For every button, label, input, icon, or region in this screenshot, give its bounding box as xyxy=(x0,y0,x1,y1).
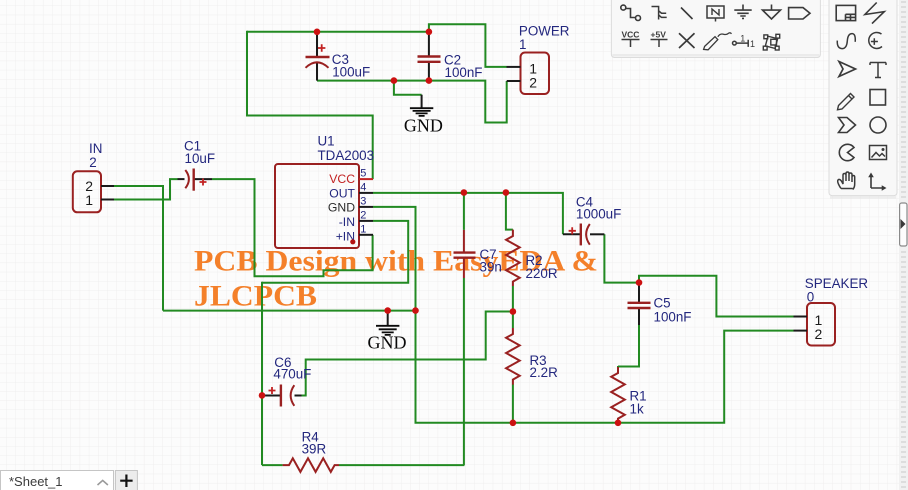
resistor R4 xyxy=(283,430,339,472)
junction R3 bottom xyxy=(510,420,517,427)
svg-text:GND: GND xyxy=(368,333,407,353)
icon drag hand xyxy=(838,172,855,190)
wire ground bus branch to C6 left and R4 xyxy=(261,282,263,465)
wire C7 bottom down to R4 row xyxy=(463,278,465,465)
icon move/cursor xyxy=(868,173,886,191)
svg-text:5: 5 xyxy=(360,168,366,180)
svg-text:*Sheet_1: *Sheet_1 xyxy=(9,474,63,489)
svg-text:1: 1 xyxy=(750,39,755,49)
svg-text:SPEAKER: SPEAKER xyxy=(805,276,869,291)
wire C5 junction to SPEAKER pin 1 xyxy=(639,276,794,317)
U1 anchor dot xyxy=(350,239,355,244)
svg-text:220R: 220R xyxy=(526,266,558,281)
wire ground bus xyxy=(163,310,416,312)
icon pie xyxy=(839,144,854,160)
ground symbol top xyxy=(404,95,443,136)
junction bus GND2 xyxy=(384,307,391,314)
svg-text:GND: GND xyxy=(328,201,355,215)
svg-text:TDA2003: TDA2003 xyxy=(318,148,375,163)
icon polyline xyxy=(865,3,884,24)
icon line tool xyxy=(681,8,693,20)
icon polygon xyxy=(839,118,856,133)
svg-text:1: 1 xyxy=(519,37,526,52)
resistor R1 xyxy=(611,367,646,424)
junction R2 bottom xyxy=(510,308,517,315)
svg-text:39n: 39n xyxy=(480,259,502,274)
svg-text:100uF: 100uF xyxy=(332,65,370,80)
svg-text:1k: 1k xyxy=(630,402,644,417)
icon no-connect X xyxy=(679,33,695,48)
drawing tools palette xyxy=(829,0,897,199)
wire C4 right to C5 junction xyxy=(604,234,639,282)
wiring tools palette xyxy=(611,0,820,58)
resistor R2 xyxy=(506,230,558,286)
svg-text:2: 2 xyxy=(89,155,96,170)
svg-text:2.2R: 2.2R xyxy=(530,365,559,380)
pin 1 +IN stub xyxy=(359,224,373,236)
wire IN pin 2 down to ground bus xyxy=(114,185,163,311)
icon bezier xyxy=(837,34,855,49)
svg-text:-IN: -IN xyxy=(339,215,355,229)
icon group/symbol tool xyxy=(763,34,779,50)
icon chassis ground xyxy=(763,5,781,20)
icon pencil xyxy=(838,94,855,110)
junction C5 top xyxy=(636,279,643,286)
pin dot C6 xyxy=(259,392,266,399)
svg-text:GND: GND xyxy=(404,116,443,136)
svg-text:IN: IN xyxy=(89,141,102,156)
capacitor C6 xyxy=(264,355,312,407)
capacitor C1 xyxy=(178,139,216,191)
add sheet button xyxy=(115,471,137,490)
wire U1 GND pin to ground bus and bottom bus to SPEAKER pin 2 xyxy=(373,207,794,423)
icon rectangle xyxy=(870,90,886,106)
pin 3 GND stub xyxy=(359,196,373,208)
pin 4 OUT stub xyxy=(359,182,373,194)
junction C3 top xyxy=(314,29,321,36)
svg-text:VCC: VCC xyxy=(329,172,355,186)
svg-text:1: 1 xyxy=(740,34,745,44)
pin 2 -IN stub xyxy=(359,210,373,222)
icon text xyxy=(870,63,886,78)
svg-text:470uF: 470uF xyxy=(273,367,311,382)
wire VCC left loop to U1 pin 5 xyxy=(247,31,373,179)
svg-text:OUT: OUT xyxy=(329,186,355,200)
wire R4 row xyxy=(262,464,464,466)
icon net label xyxy=(707,6,724,22)
junction C2 bottom xyxy=(426,77,433,84)
svg-text:VCC: VCC xyxy=(622,30,640,40)
icon image xyxy=(870,146,887,160)
icon bus entry xyxy=(652,7,667,20)
wire C2 top to POWER pin 1 xyxy=(429,24,507,67)
connector IN xyxy=(73,141,114,212)
icon arc xyxy=(869,32,882,48)
wire C5 bottom to R1 xyxy=(618,325,639,423)
wire GND symbol tap xyxy=(394,81,422,95)
icon wire tool xyxy=(621,5,641,20)
svg-text:100nF: 100nF xyxy=(445,65,483,80)
svg-text:JLCPCB: JLCPCB xyxy=(194,281,317,313)
icon arrow xyxy=(839,62,856,77)
icon VCC flag xyxy=(622,30,640,48)
junction bus right xyxy=(412,307,419,314)
icon design manager xyxy=(836,5,855,20)
connector SPEAKER xyxy=(794,276,869,345)
svg-text:100nF: 100nF xyxy=(654,310,692,325)
svg-text:2: 2 xyxy=(815,326,823,342)
svg-text:39R: 39R xyxy=(302,442,327,457)
wire GND rail C3/C2 bottom to POWER pin 2 xyxy=(317,81,507,123)
svg-text:1: 1 xyxy=(360,224,366,236)
connector POWER xyxy=(507,24,570,95)
svg-text:4: 4 xyxy=(360,182,366,194)
icon ellipse xyxy=(870,117,886,133)
capacitor C2 xyxy=(418,32,483,81)
svg-text:POWER: POWER xyxy=(519,24,570,39)
wire R2 bottom to junction xyxy=(512,286,514,312)
svg-text:2: 2 xyxy=(360,210,366,222)
junction OUT C7 xyxy=(461,189,468,196)
op-amp U1 TDA2003 xyxy=(275,134,374,248)
wire U1 -IN feedback xyxy=(262,221,408,283)
junction OUT R2 xyxy=(503,189,510,196)
wire OUT junction to R2 xyxy=(506,193,513,230)
icon net port xyxy=(789,8,810,19)
svg-text:2: 2 xyxy=(529,75,537,91)
svg-text:1: 1 xyxy=(85,192,93,208)
svg-text:0: 0 xyxy=(807,289,814,304)
svg-text:10uF: 10uF xyxy=(185,151,216,166)
capacitor C3 xyxy=(306,32,371,81)
icon pin xyxy=(733,34,756,50)
icon earth ground xyxy=(734,5,751,19)
svg-text:C5: C5 xyxy=(654,296,671,311)
svg-text:+5V: +5V xyxy=(651,30,667,40)
pin 5 VCC stub xyxy=(359,168,373,180)
icon +5V flag xyxy=(651,30,668,48)
wire IN pin 1 to C1 xyxy=(114,179,178,200)
svg-text:3: 3 xyxy=(360,196,366,208)
capacitor C5 xyxy=(628,283,692,325)
junction C2 top xyxy=(426,29,433,36)
junction R1 bottom xyxy=(615,420,622,427)
icon probe pen xyxy=(704,33,732,50)
wire OUT junction down to C7 xyxy=(463,193,465,230)
scrollbar track xyxy=(899,0,908,490)
wire R2 junction to C6 right xyxy=(301,312,513,396)
capacitor C7 xyxy=(454,230,502,278)
sheet tab bar xyxy=(1,471,114,490)
watermark text PCB Design with EasyEDA & JLCPCB xyxy=(194,246,598,313)
junction GND tap xyxy=(391,77,398,84)
svg-text:1000uF: 1000uF xyxy=(576,207,621,222)
resistor R3 xyxy=(506,312,558,423)
wire U1 OUT to C4 xyxy=(373,193,563,234)
ground symbol bottom xyxy=(368,311,407,353)
wire VCC top rail xyxy=(247,31,429,33)
scrollbar thumb xyxy=(900,203,907,246)
svg-text:U1: U1 xyxy=(318,134,335,149)
wire C1 to U1 +IN xyxy=(212,179,373,276)
capacitor C4 xyxy=(563,195,621,246)
